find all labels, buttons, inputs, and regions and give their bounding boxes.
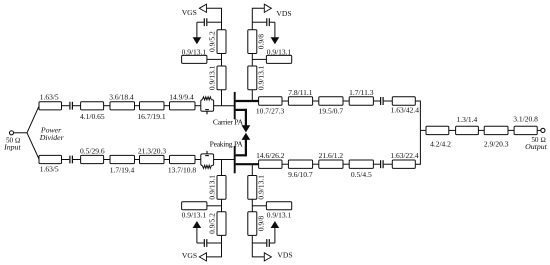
dc-block capacitor (peaking output) <box>381 160 384 168</box>
wire to open stub (bottom VDS) <box>252 205 266 207</box>
wire <box>343 163 349 165</box>
wire <box>313 163 319 165</box>
wire VGS arrow to bias line (top) <box>207 8 222 30</box>
svg-text:14.9/9.4: 14.9/9.4 <box>169 93 194 102</box>
transmission line 13.7/10.8 <box>168 155 197 174</box>
wire capacitor to bias line (top VGS) <box>207 21 221 23</box>
VGS supply arrow (top) <box>199 4 206 12</box>
capacitor in RC network (peaking) <box>205 155 209 157</box>
VGS supply arrow (bottom) <box>199 253 206 261</box>
wire <box>104 159 110 161</box>
wire VDS arrow to bias line (bottom) <box>252 235 264 257</box>
peaking source ground arrow <box>242 133 251 140</box>
dc-block capacitor (peaking input) <box>70 156 73 164</box>
transmission line 21.6/1.2 <box>319 151 344 168</box>
VDS supply arrow (top) <box>264 4 271 12</box>
wire <box>73 105 81 107</box>
wire to open stub (bottom VGS) <box>207 205 222 207</box>
open stub 0.9/13.1 (bottom VDS) <box>266 202 291 220</box>
wire <box>373 100 380 102</box>
transmission line 7.8/11.1 <box>288 88 313 105</box>
svg-text:1.63/22.4: 1.63/22.4 <box>390 151 419 160</box>
wire to peaking RC network <box>195 159 201 161</box>
wire between bias lines (top VGS) <box>221 54 223 67</box>
wire <box>282 163 288 165</box>
wire capacitor to ground lead (top VDS) <box>270 21 275 23</box>
transmission line 4.2/4.2 <box>426 126 451 148</box>
dc-block capacitor (carrier output) <box>381 97 384 105</box>
svg-text:VDS: VDS <box>277 250 292 259</box>
output port 50 ohm terminal <box>525 128 547 151</box>
ground lead (top VGS) <box>196 22 198 38</box>
ground lead (bottom VDS) <box>274 227 276 243</box>
svg-text:1.3/1.4: 1.3/1.4 <box>456 115 477 124</box>
bypass capacitor (top VDS) <box>267 18 270 26</box>
transmission line 0.9/8 (bottom VDS bias) <box>248 212 266 236</box>
svg-text:0.9/13.1: 0.9/13.1 <box>208 65 217 90</box>
ground arrow (top VDS) <box>271 37 280 44</box>
wire between bias lines (bottom VGS) <box>221 199 223 212</box>
svg-text:21.3/20.3: 21.3/20.3 <box>138 147 167 156</box>
svg-text:0.9/8: 0.9/8 <box>256 34 265 49</box>
transmission line 21.3/20.3 <box>138 147 167 164</box>
wire bias to peaking drain <box>251 164 253 175</box>
svg-text:3.6/18.4: 3.6/18.4 <box>109 93 134 102</box>
svg-text:2.9/20.3: 2.9/20.3 <box>484 139 509 148</box>
svg-text:1.7/19.4: 1.7/19.4 <box>110 166 135 175</box>
open stub 0.9/13.1 (top VDS) <box>266 47 291 63</box>
svg-text:0.9/13.1: 0.9/13.1 <box>267 47 292 56</box>
transmission line 0.9/8 (top VDS bias) <box>248 30 266 54</box>
capacitor in RC network (carrier) <box>205 109 209 111</box>
transmission line 1.63/22.4 <box>390 151 419 168</box>
ground arrow (top VGS) <box>193 37 202 44</box>
transmission line 3.1/20.8 <box>513 115 538 135</box>
wire <box>508 129 514 131</box>
ground lead (bottom VGS) <box>196 227 198 243</box>
transmission line 10.7/27.3 (carrier output) <box>256 97 285 116</box>
transmission line 4.1/0.65 <box>80 102 105 121</box>
VDS supply arrow (bottom) <box>264 253 271 261</box>
svg-text:1.63/42.4: 1.63/42.4 <box>391 105 420 114</box>
wire to open stub (top VDS) <box>252 58 266 60</box>
svg-text:0.9/13.1: 0.9/13.1 <box>182 47 207 56</box>
svg-text:21.6/1.2: 21.6/1.2 <box>319 151 344 160</box>
wire VGS arrow to bias line (bottom) <box>207 235 222 257</box>
wire to open stub (top VGS) <box>207 58 222 60</box>
wire input to divider node <box>13 132 27 134</box>
svg-text:VGS: VGS <box>182 8 197 17</box>
resistor zigzag (peaking gate) <box>202 165 211 168</box>
svg-text:Input: Input <box>3 143 21 152</box>
transistor Carrier PA <box>235 92 259 126</box>
svg-text:Output: Output <box>525 142 547 151</box>
ground arrow (bottom VGS) <box>193 221 202 228</box>
transmission line 1.7/19.4 <box>110 155 135 174</box>
bypass capacitor wire (top VGS) <box>197 21 204 23</box>
svg-text:0.9/5.2: 0.9/5.2 <box>208 31 217 52</box>
svg-text:0.9/5.2: 0.9/5.2 <box>208 213 217 234</box>
RC loop frame <box>201 100 214 112</box>
wire <box>104 105 110 107</box>
svg-text:0.9/13.1: 0.9/13.1 <box>182 210 207 219</box>
svg-text:Carrier PA: Carrier PA <box>213 118 244 127</box>
wire <box>449 129 456 131</box>
wire to output port <box>537 129 541 131</box>
transmission line 3.6/18.4 <box>109 93 134 110</box>
wire <box>373 163 380 165</box>
svg-text:VGS: VGS <box>182 251 197 260</box>
wire <box>73 159 81 161</box>
wire bias to carrier drain <box>251 90 253 101</box>
carrier source ground arrow <box>242 125 251 132</box>
svg-text:3.1/20.8: 3.1/20.8 <box>513 115 538 124</box>
svg-text:10.7/27.3: 10.7/27.3 <box>256 107 285 116</box>
wire bias line to bypass capacitor (top VDS) <box>252 21 266 23</box>
transmission line 0.9/13.1 (bottom VGS bias) <box>208 175 227 200</box>
dc-block capacitor (carrier input) <box>70 102 73 110</box>
transmission line 1.3/1.4 <box>456 115 479 134</box>
svg-text:13.7/10.8: 13.7/10.8 <box>168 166 197 175</box>
svg-text:0.5/4.5: 0.5/4.5 <box>351 170 372 179</box>
wire VDS arrow to bias line (top) <box>252 8 264 30</box>
svg-text:4.1/0.65: 4.1/0.65 <box>80 112 105 121</box>
svg-text:1.7/11.3: 1.7/11.3 <box>349 88 374 97</box>
wire RC to peaking gate <box>214 159 235 161</box>
wire <box>135 159 140 161</box>
ground lead (top VDS) <box>274 22 276 38</box>
transmission line 0.9/13.1 (top VGS bias) <box>208 65 227 90</box>
wire bias line to bypass capacitor (bottom VDS) <box>252 242 266 244</box>
transmission line 1.63/5 (carrier input) <box>39 93 62 110</box>
svg-text:0.9/13.1: 0.9/13.1 <box>256 65 265 90</box>
RC loop frame <box>201 154 214 166</box>
bypass capacitor (bottom VGS) <box>204 239 207 247</box>
resistor zigzag (carrier gate) <box>202 97 211 100</box>
open stub 0.9/13.1 (bottom VGS) <box>182 202 207 220</box>
transmission line 14.6/26.2 (peaking output) <box>256 151 285 168</box>
transmission line 1.7/11.3 <box>349 88 374 105</box>
transmission line 16.7/19.1 <box>137 102 166 121</box>
wire <box>164 159 170 161</box>
power divider upper branch wire <box>27 106 39 133</box>
svg-text:0.9/8: 0.9/8 <box>256 216 265 231</box>
wire <box>62 159 70 161</box>
power divider lower branch wire <box>27 133 39 160</box>
svg-text:4.2/4.2: 4.2/4.2 <box>430 139 451 148</box>
wire bias to carrier gate <box>221 90 223 106</box>
open stub 0.9/13.1 (top VGS) <box>182 47 207 63</box>
wire between bias lines (top VDS) <box>251 54 253 67</box>
svg-text:16.7/19.1: 16.7/19.1 <box>137 112 166 121</box>
bypass capacitor (top VGS) <box>204 18 207 26</box>
wire to carrier RC network <box>195 105 201 107</box>
wire <box>384 163 393 165</box>
transmission line 0.5/29.6 <box>80 147 105 164</box>
carrier RC stabilizing network <box>201 97 214 115</box>
transmission line 19.5/0.7 <box>319 97 344 116</box>
ground arrow (bottom VDS) <box>271 221 280 228</box>
transmission line 9.6/10.7 <box>288 160 313 179</box>
wire RC to carrier gate <box>214 105 235 107</box>
wire capacitor to ground lead (bottom VDS) <box>270 242 275 244</box>
bypass capacitor (bottom VDS) <box>267 239 270 247</box>
transmission line 14.9/9.4 <box>169 93 195 110</box>
transistor Peaking PA <box>235 139 259 173</box>
wire <box>478 129 484 131</box>
svg-text:0.5/29.6: 0.5/29.6 <box>80 147 105 156</box>
svg-text:9.6/10.7: 9.6/10.7 <box>288 170 313 179</box>
wire <box>343 100 349 102</box>
svg-text:Peaking PA: Peaking PA <box>210 140 244 149</box>
wire carrier output to combiner <box>415 101 420 130</box>
transmission line 0.9/5.2 (top VGS bias) <box>208 30 227 54</box>
peaking RC stabilizing network <box>201 151 214 169</box>
svg-text:0.9/13.1: 0.9/13.1 <box>267 210 292 219</box>
wire <box>62 105 70 107</box>
wire peaking output to combiner <box>415 130 420 164</box>
wire <box>135 105 140 107</box>
wire <box>384 100 393 102</box>
power divider label <box>39 125 65 142</box>
svg-text:1.63/5: 1.63/5 <box>40 165 59 174</box>
wire combiner node to output line <box>420 129 426 131</box>
svg-text:19.5/0.7: 19.5/0.7 <box>319 107 344 116</box>
wire capacitor to bias line (bottom VGS) <box>207 242 221 244</box>
transmission line 1.63/5 (peaking input) <box>39 155 62 173</box>
input port 50 ohm terminal <box>3 131 21 152</box>
svg-text:7.8/11.1: 7.8/11.1 <box>288 88 313 97</box>
wire <box>313 100 319 102</box>
bypass capacitor wire (bottom VGS) <box>197 242 204 244</box>
wire between bias lines (bottom VDS) <box>251 199 253 212</box>
wire <box>282 100 288 102</box>
transmission line 0.5/4.5 <box>349 160 373 179</box>
svg-text:0.9/13.1: 0.9/13.1 <box>256 175 265 200</box>
svg-text:Divider: Divider <box>39 133 65 142</box>
transmission line 1.63/42.4 <box>391 97 420 115</box>
transmission line 0.9/13.1 (bottom VDS bias) <box>248 175 266 200</box>
svg-text:1.63/5: 1.63/5 <box>40 93 59 102</box>
svg-text:VDS: VDS <box>276 9 291 18</box>
transmission line 2.9/20.3 <box>484 126 509 148</box>
wire bias to peaking gate <box>221 160 223 176</box>
svg-text:14.6/26.2: 14.6/26.2 <box>256 151 285 160</box>
transmission line 0.9/13.1 (top VDS bias) <box>248 65 266 90</box>
wire <box>164 105 170 107</box>
svg-text:0.9/13.1: 0.9/13.1 <box>208 175 217 200</box>
transmission line 0.9/5.2 (bottom VGS bias) <box>208 212 227 236</box>
